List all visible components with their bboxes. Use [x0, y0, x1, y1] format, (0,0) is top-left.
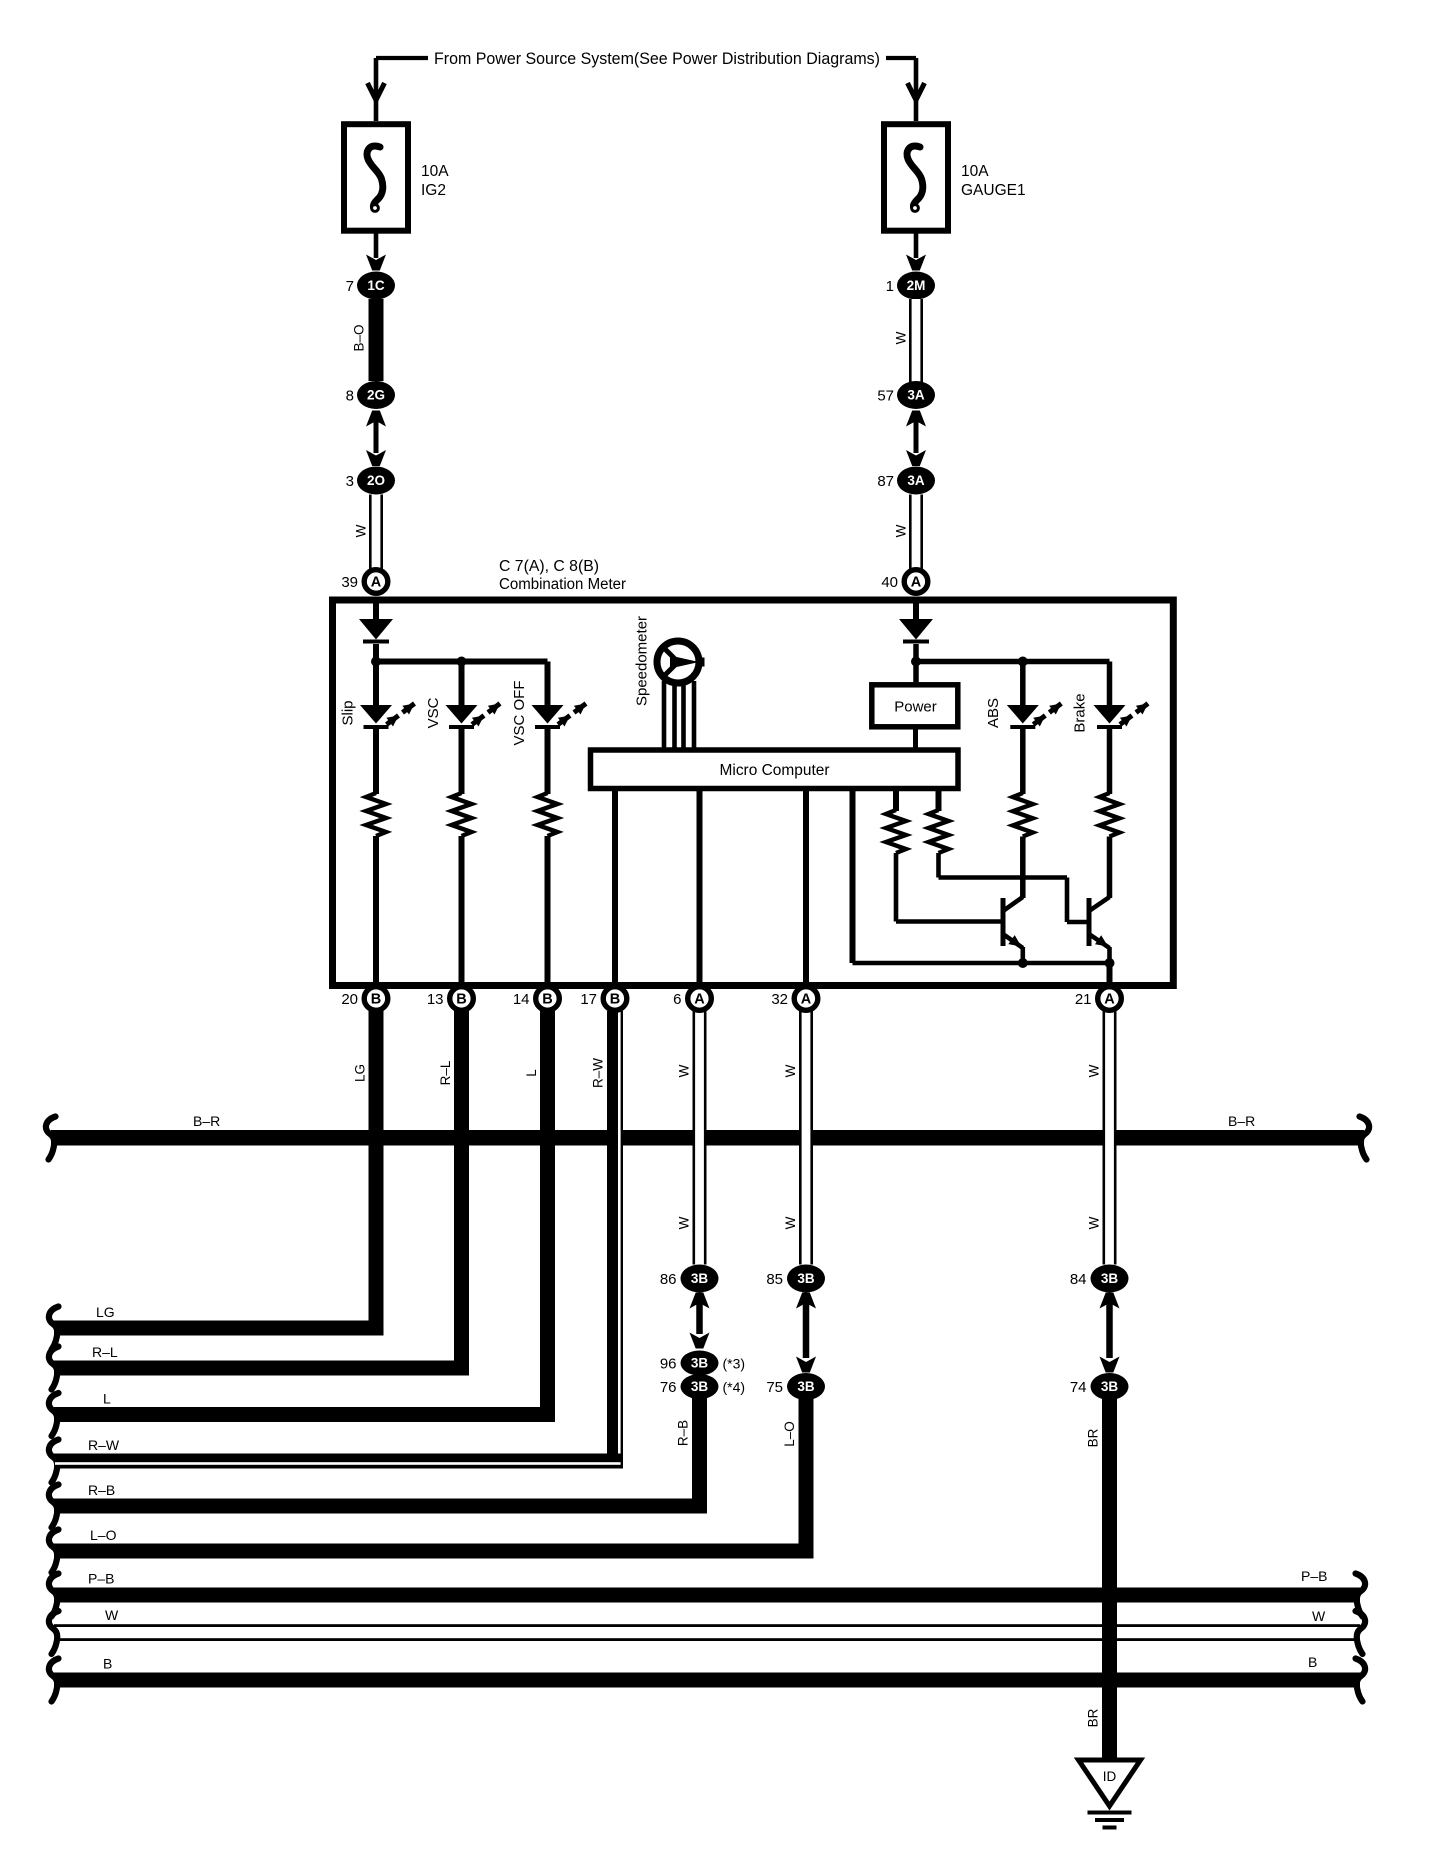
svg-text:R–W: R–W: [591, 1058, 606, 1088]
svg-text:B: B: [371, 992, 381, 1008]
svg-text:W: W: [677, 1216, 692, 1229]
svg-text:B: B: [542, 992, 552, 1008]
svg-text:VSC OFF: VSC OFF: [511, 680, 528, 745]
svg-text:A: A: [911, 575, 922, 591]
svg-text:Combination Meter: Combination Meter: [499, 576, 626, 593]
svg-text:L–O: L–O: [90, 1527, 117, 1543]
svg-text:84: 84: [1070, 1271, 1087, 1288]
svg-text:32: 32: [771, 991, 788, 1008]
svg-text:A: A: [371, 575, 382, 591]
svg-text:85: 85: [766, 1271, 783, 1288]
svg-text:B: B: [1308, 1654, 1317, 1670]
svg-text:L–O: L–O: [782, 1421, 797, 1447]
svg-text:R–L: R–L: [92, 1344, 118, 1360]
svg-text:W: W: [354, 524, 369, 537]
svg-text:8: 8: [346, 388, 354, 405]
svg-text:L: L: [103, 1391, 111, 1407]
svg-text:ABS: ABS: [985, 698, 1002, 728]
svg-text:W: W: [783, 1216, 798, 1229]
svg-text:3B: 3B: [691, 1379, 709, 1394]
svg-text:Slip: Slip: [340, 700, 357, 725]
svg-text:W: W: [1087, 1064, 1102, 1077]
svg-text:21: 21: [1075, 991, 1092, 1008]
svg-text:BR: BR: [1086, 1428, 1101, 1447]
svg-text:Speedometer: Speedometer: [634, 616, 651, 706]
svg-text:2G: 2G: [367, 388, 385, 403]
svg-text:75: 75: [766, 1379, 783, 1396]
svg-text:B: B: [103, 1656, 112, 1672]
svg-text:96: 96: [660, 1356, 677, 1373]
svg-text:R–B: R–B: [88, 1482, 115, 1498]
svg-text:A: A: [1104, 992, 1115, 1008]
svg-text:L: L: [524, 1069, 539, 1077]
svg-text:3B: 3B: [797, 1379, 815, 1394]
svg-text:From Power Source System(See P: From Power Source System(See Power Distr…: [434, 50, 880, 68]
svg-text:P–B: P–B: [1301, 1568, 1327, 1584]
svg-text:10A: 10A: [421, 163, 449, 180]
svg-text:Power: Power: [894, 699, 937, 716]
svg-text:39: 39: [341, 574, 358, 591]
svg-text:R–L: R–L: [438, 1060, 453, 1085]
svg-text:76: 76: [660, 1379, 677, 1396]
svg-text:W: W: [894, 331, 909, 344]
svg-text:57: 57: [877, 388, 894, 405]
svg-text:3A: 3A: [907, 388, 925, 403]
svg-text:W: W: [105, 1607, 119, 1623]
svg-text:3A: 3A: [907, 473, 925, 488]
svg-text:14: 14: [513, 991, 530, 1008]
svg-text:C 7(A), C 8(B): C 7(A), C 8(B): [499, 558, 599, 575]
svg-text:74: 74: [1070, 1379, 1087, 1396]
svg-text:3B: 3B: [797, 1271, 815, 1286]
svg-text:B–O: B–O: [352, 324, 367, 351]
svg-text:B: B: [456, 992, 466, 1008]
svg-text:40: 40: [881, 574, 898, 591]
svg-text:6: 6: [673, 991, 681, 1008]
svg-text:B–R: B–R: [193, 1113, 220, 1129]
svg-text:GAUGE1: GAUGE1: [961, 182, 1026, 199]
svg-text:A: A: [801, 992, 812, 1008]
svg-text:3B: 3B: [1101, 1379, 1119, 1394]
svg-text:W: W: [783, 1064, 798, 1077]
svg-text:W: W: [677, 1064, 692, 1077]
svg-text:17: 17: [580, 991, 597, 1008]
svg-text:VSC: VSC: [425, 697, 442, 728]
svg-text:Brake: Brake: [1072, 693, 1089, 732]
svg-text:ID: ID: [1103, 1769, 1117, 1784]
svg-text:W: W: [1312, 1608, 1326, 1624]
svg-text:B: B: [610, 992, 620, 1008]
svg-text:7: 7: [346, 278, 354, 295]
svg-text:2M: 2M: [907, 278, 926, 293]
svg-text:LG: LG: [96, 1304, 115, 1320]
svg-text:13: 13: [427, 991, 444, 1008]
svg-text:20: 20: [341, 991, 358, 1008]
svg-text:R–B: R–B: [676, 1420, 691, 1446]
svg-text:A: A: [694, 992, 705, 1008]
svg-text:P–B: P–B: [88, 1571, 114, 1587]
svg-text:3B: 3B: [691, 1356, 709, 1371]
svg-text:3B: 3B: [1101, 1271, 1119, 1286]
svg-text:(*4): (*4): [723, 1379, 746, 1395]
svg-text:3B: 3B: [691, 1271, 709, 1286]
svg-text:Micro Computer: Micro Computer: [720, 762, 830, 779]
svg-text:1C: 1C: [367, 278, 385, 293]
svg-text:86: 86: [660, 1271, 677, 1288]
svg-text:W: W: [1087, 1216, 1102, 1229]
svg-text:87: 87: [877, 473, 894, 490]
svg-text:IG2: IG2: [421, 182, 446, 199]
svg-text:3: 3: [346, 473, 354, 490]
svg-text:R–W: R–W: [88, 1437, 120, 1453]
svg-text:BR: BR: [1086, 1708, 1101, 1727]
svg-text:2O: 2O: [367, 473, 385, 488]
svg-text:10A: 10A: [961, 163, 989, 180]
svg-text:W: W: [894, 524, 909, 537]
svg-text:(*3): (*3): [723, 1356, 746, 1372]
svg-text:1: 1: [886, 278, 894, 295]
svg-text:B–R: B–R: [1228, 1113, 1255, 1129]
svg-text:LG: LG: [353, 1064, 368, 1082]
